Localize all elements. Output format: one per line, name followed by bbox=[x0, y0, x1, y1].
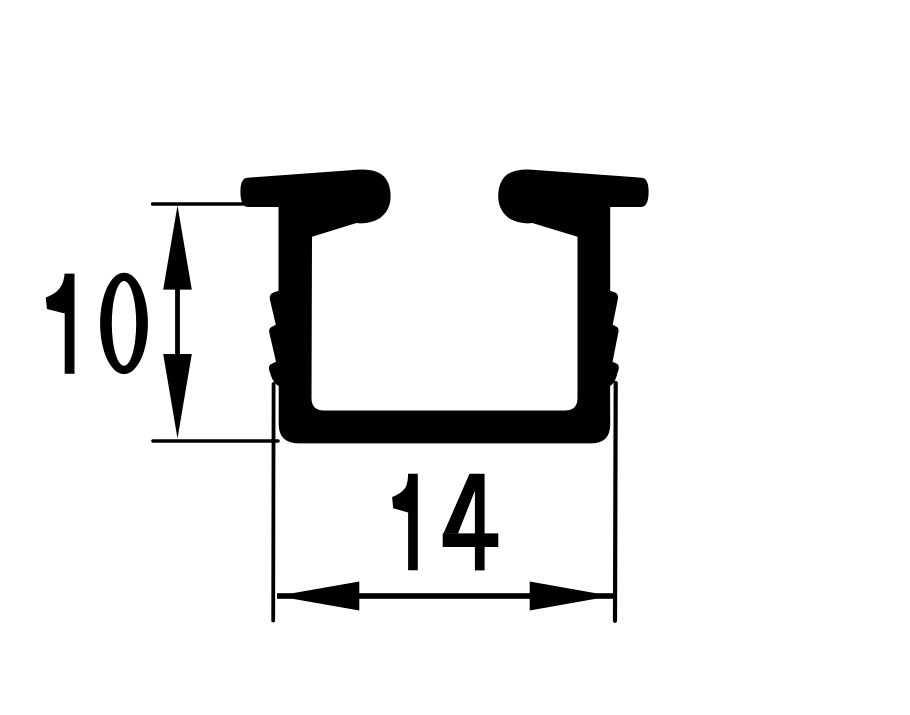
dimension 14: left arrowhead bbox=[277, 582, 360, 611]
dimension 14: right arrowhead bbox=[530, 582, 612, 611]
dimension 10: value label "10" bbox=[46, 273, 148, 374]
dimension 14: horizontal dimension line bbox=[277, 593, 614, 599]
profile cross-section (U-channel body with barbed walls) bbox=[240, 170, 648, 444]
dimension 10: upper arrowhead bbox=[163, 206, 192, 290]
dimension 10: bottom extension line bbox=[151, 439, 280, 443]
dimension 14: right extension line bbox=[613, 383, 618, 621]
dimension 10: lower arrowhead bbox=[163, 354, 192, 439]
dimension 10: vertical dimension line bbox=[175, 287, 180, 357]
dimension 14: left extension line bbox=[271, 384, 275, 621]
dimension 10: top extension line bbox=[151, 202, 262, 206]
dimension 14: value label "14" bbox=[392, 474, 498, 571]
